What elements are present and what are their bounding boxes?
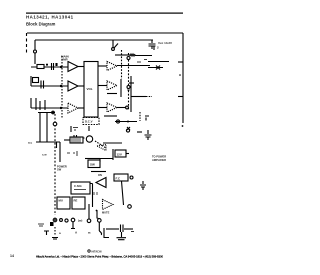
right edge tick y96 — [178, 96, 183, 98]
pin circle — [60, 219, 63, 222]
wire y83 — [129, 82, 134, 84]
svg-text:AMPLIFIER: AMPLIFIER — [152, 158, 166, 162]
wire A3 to block — [78, 107, 84, 109]
small marks — [137, 131, 142, 133]
input row 1 marks — [46, 63, 57, 66]
dashes y96 — [146, 96, 152, 98]
line under T5 — [107, 93, 117, 95]
input row 2 box — [33, 78, 39, 83]
switch lever dashes — [95, 141, 106, 148]
cap pair mid — [74, 135, 85, 142]
wire y61 right — [148, 61, 169, 63]
svg-text:TO POWER: TO POWER — [152, 155, 166, 159]
svg-text:MUTE: MUTE — [102, 211, 110, 215]
circle on bus — [53, 122, 57, 126]
svg-text:2: 2 — [157, 46, 159, 50]
wire block to B1 — [98, 65, 107, 67]
wire A2 to block — [78, 85, 84, 87]
wire y111 — [104, 115, 117, 117]
tick from box — [126, 153, 129, 155]
wire y122 — [115, 121, 137, 123]
right edge dot — [179, 74, 181, 76]
resistor R2 zigzag — [130, 54, 135, 56]
svg-text:Hitachi America Ltd. • Hitachi: Hitachi America Ltd. • Hitachi Plaza • 2… — [36, 254, 163, 258]
svg-text:D.C.V: D.C.V — [85, 120, 93, 124]
switch pole circle top — [127, 57, 130, 60]
inner top rail — [35, 39, 153, 41]
svg-text:14: 14 — [10, 254, 14, 258]
op-amp B3 — [107, 103, 117, 112]
outer border left dashes — [26, 33, 28, 54]
small x mark — [127, 127, 130, 130]
drop — [121, 232, 123, 237]
svg-text:a.c: a.c — [28, 141, 33, 145]
small marks right — [145, 116, 149, 121]
input row 1 resistor — [37, 65, 44, 69]
dashed bus x128 — [128, 53, 130, 110]
dashes — [54, 227, 56, 236]
circle right of box — [130, 176, 133, 179]
vertical x121 — [120, 79, 122, 97]
pin stem x89 — [88, 204, 90, 219]
wire B1 out — [117, 65, 150, 67]
corner box lower — [100, 159, 113, 163]
op-amp B2 — [107, 81, 117, 90]
op-amp A2 — [68, 81, 78, 91]
node circle — [126, 106, 129, 109]
left pin stem — [34, 40, 36, 50]
bottom right cap network — [106, 228, 119, 230]
small left triangle — [97, 145, 106, 151]
hatched box — [70, 137, 83, 143]
mid horizontal y112.5 — [38, 112, 55, 114]
box B — [57, 197, 70, 209]
cap to ground C2 — [145, 130, 152, 140]
input row 2 cap — [41, 81, 44, 89]
mid horizontal y142 — [36, 141, 60, 143]
node A dot — [96, 210, 98, 212]
small mark right — [131, 231, 134, 233]
dashed control bus x55 — [54, 114, 56, 215]
svg-text:C.SIG: C.SIG — [74, 184, 82, 188]
cap to ground half — [140, 181, 146, 190]
box with circle — [114, 174, 128, 181]
pin circle with stem — [71, 218, 75, 222]
mid verticals from row3 — [40, 113, 47, 142]
circle on y122 — [116, 120, 119, 123]
box 12V — [115, 150, 126, 157]
switch pole circle mid — [127, 86, 130, 89]
svg-text:(w): (w) — [78, 219, 82, 223]
wire block to B2 — [98, 85, 107, 87]
wire y56 to right — [135, 55, 152, 57]
wire A1 to block — [78, 66, 84, 68]
switch S1 pole — [112, 48, 115, 51]
op-amp B1 — [107, 62, 117, 71]
dashed upper x121 — [121, 50, 123, 79]
svg-text:w.: w. — [87, 231, 91, 235]
cap C1 — [149, 40, 156, 49]
input row 2 junction — [60, 85, 62, 87]
wire y143 — [103, 142, 122, 144]
verticals below y142 — [57, 142, 61, 162]
svg-text:VOL: VOL — [87, 87, 93, 91]
input row 1 wire — [31, 66, 68, 68]
switch S1 stem — [112, 40, 114, 48]
left triangle amp — [96, 178, 106, 188]
input row 2 stub — [31, 76, 68, 86]
stub vertical x89 — [88, 126, 90, 131]
op-amp A3 — [68, 103, 78, 113]
input row 3 marks — [36, 98, 45, 110]
connector from box A — [90, 184, 93, 208]
right edge tick y62 — [178, 61, 183, 63]
vertical x121 lower — [122, 181, 124, 205]
svg-text:MU: MU — [59, 199, 63, 203]
input row 3 stub — [31, 98, 68, 108]
node circle x53 — [52, 111, 55, 114]
svg-text:SW: SW — [90, 163, 95, 167]
line y158 — [85, 158, 100, 160]
pin circle P1 — [34, 50, 37, 53]
dots mid — [94, 192, 97, 195]
svg-text:Vcc 13.2V: Vcc 13.2V — [158, 41, 172, 45]
svg-text:SW: SW — [57, 168, 62, 172]
junction dot — [127, 121, 129, 123]
svg-text:12V: 12V — [117, 153, 122, 157]
top small circle — [126, 129, 129, 132]
wire y96 — [131, 96, 146, 98]
outer border right — [182, 33, 184, 123]
box bottom right — [104, 228, 109, 238]
box C — [72, 197, 85, 209]
wire y55 — [115, 54, 130, 56]
svg-text:a: a — [59, 231, 61, 235]
left bottom marks — [38, 224, 44, 226]
tick marks mid top — [73, 128, 78, 132]
bus dashed vertical x62 — [61, 56, 63, 118]
vertical x140 — [139, 112, 141, 121]
open circle — [86, 136, 92, 142]
sw box — [88, 160, 100, 168]
node circle lower — [128, 205, 132, 209]
series cap — [121, 225, 124, 233]
op-amp A1 — [68, 62, 78, 72]
vertical right of triangle — [105, 179, 107, 186]
volume block U1 — [84, 62, 98, 118]
right edge dot low — [182, 125, 184, 127]
tick — [153, 46, 155, 50]
svg-text:ON: ON — [98, 173, 102, 177]
svg-text:AMP: AMP — [61, 58, 68, 62]
T marks — [44, 231, 49, 235]
box A — [71, 182, 90, 194]
svg-text:HITACHI: HITACHI — [92, 250, 102, 253]
input row 1 junction — [60, 66, 62, 68]
svg-text:s.w: s.w — [42, 153, 47, 157]
svg-text:HA13421, HA13041: HA13421, HA13041 — [26, 15, 74, 20]
vertical x131 — [130, 76, 132, 112]
small marks y62 — [137, 60, 147, 63]
switch S1 lever — [114, 44, 118, 49]
header rule — [26, 13, 183, 14]
stub vertical x71 — [70, 126, 72, 132]
mid wire y140 — [64, 139, 70, 141]
dots lower mid — [67, 151, 77, 156]
wire y171.5 — [91, 171, 106, 173]
svg-text:A: A — [75, 231, 78, 235]
wire block to B3 — [98, 107, 107, 109]
input row 3 junction — [60, 107, 62, 109]
input row 1 cap — [52, 63, 54, 70]
filled square — [50, 222, 54, 226]
pin circle — [65, 219, 68, 222]
svg-text:Block Diagram: Block Diagram — [26, 21, 56, 26]
pin circle x97 — [98, 219, 102, 223]
arrow on bus — [127, 90, 130, 93]
svg-text:RE: RE — [74, 199, 78, 203]
vertical x113 — [112, 149, 114, 160]
crossed line — [148, 66, 163, 70]
pin stem x97 — [97, 210, 99, 219]
outer border top — [27, 32, 183, 34]
mute triangle — [103, 200, 114, 210]
footer logo — [88, 250, 90, 252]
wire B3 out — [117, 107, 126, 109]
ground cap — [117, 238, 127, 240]
pin circle x89 — [87, 219, 91, 223]
pin row: crossed circle — [53, 218, 57, 222]
cap bar — [52, 238, 58, 240]
dashed label box under block — [83, 118, 99, 125]
